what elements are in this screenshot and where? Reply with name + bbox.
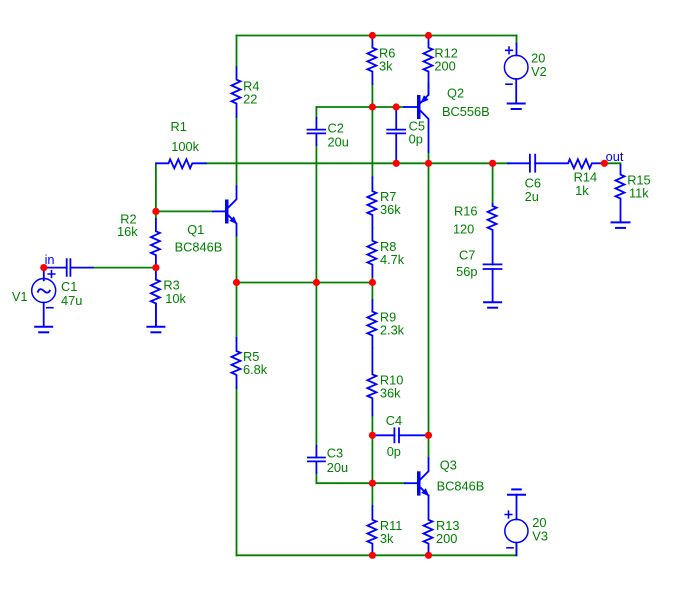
wire R16 top: [492, 163, 494, 204]
svg-text:C7: C7: [459, 248, 475, 263]
capacitor C3 20u: [308, 446, 325, 473]
node R6 top junction: [369, 32, 376, 39]
svg-text:1k: 1k: [575, 183, 589, 198]
svg-text:C4: C4: [386, 413, 402, 428]
wire R6 column joins: [371, 36, 373, 38]
resistor R4 22: [232, 67, 241, 117]
resistor R6 3k: [367, 38, 376, 85]
svg-text:C2: C2: [328, 120, 344, 135]
svg-text:20u: 20u: [328, 134, 349, 149]
wire top rail: [237, 35, 517, 37]
node R13 bottom junction: [425, 552, 432, 559]
node out dot: [601, 160, 608, 167]
svg-text:4.7k: 4.7k: [380, 252, 405, 267]
svg-text:16k: 16k: [117, 224, 138, 239]
svg-text:0p: 0p: [409, 132, 423, 147]
wire C5 column top: [395, 107, 397, 110]
svg-text:56p: 56p: [456, 264, 477, 279]
wire Q3 base segment: [372, 482, 405, 484]
svg-text:47u: 47u: [61, 293, 82, 308]
node R6 bottom junction: [369, 103, 376, 110]
wire Q2 collector down: [428, 152, 430, 164]
svg-text:3k: 3k: [380, 531, 394, 546]
node R8/R9 junction: [369, 279, 376, 286]
wire R4 bottom to Q1 collector: [236, 117, 238, 186]
node C2 column junction: [313, 279, 320, 286]
voltage source V1 sine: [32, 268, 56, 327]
svg-text:V1: V1: [12, 289, 28, 304]
wire C4 to Q3 collector: [428, 435, 430, 458]
resistor R1 100k: [156, 159, 205, 168]
resistor R11 3k: [367, 506, 376, 553]
wire Q3 base junction down to R11: [371, 483, 373, 506]
ground of R15: [612, 222, 630, 228]
resistor R9 2.3k: [367, 300, 376, 348]
capacitor C1 47u: [47, 259, 93, 276]
resistor R13 200: [424, 496, 433, 553]
wire R5 net top: [236, 283, 238, 338]
svg-text:V3: V3: [532, 528, 548, 543]
wire out segment: [604, 163, 620, 165]
transistor Q1 BC846B: [213, 186, 237, 235]
node in dot: [40, 264, 47, 271]
svg-text:2.3k: 2.3k: [380, 323, 405, 338]
node R11 bottom junction: [369, 552, 376, 559]
resistor R2 16k: [151, 219, 160, 266]
svg-text:C3: C3: [327, 446, 343, 461]
wire bottom rail: [237, 554, 517, 556]
ground of R3: [147, 304, 164, 333]
transistor Q2 BC556B: [404, 84, 429, 152]
node C4 left junction: [369, 432, 376, 439]
ground of C7: [484, 302, 501, 308]
ground of V2: [508, 104, 525, 110]
wire R11 bottom: [371, 553, 373, 555]
node C1/R3 junction: [152, 264, 159, 271]
svg-text:in: in: [45, 252, 55, 267]
svg-text:120: 120: [453, 222, 474, 237]
wire R12 top: [428, 36, 430, 38]
svg-text:Q3: Q3: [440, 458, 457, 473]
resistor R10 36k: [367, 348, 376, 415]
node C5 top junction: [393, 103, 400, 110]
transistor Q3 BC846B: [405, 458, 429, 496]
capacitor C6 2u: [508, 155, 535, 172]
wire C1 right to R3 junction: [93, 267, 156, 269]
wire x428 column mid: [428, 163, 430, 435]
wire R10 bottom to C4: [371, 415, 373, 483]
wire R4 top lead net: [236, 36, 238, 68]
svg-text:200: 200: [436, 531, 457, 546]
voltage source V3 20: [505, 489, 528, 555]
resistor R7 36k: [367, 177, 376, 228]
wire V3 top corner: [516, 546, 518, 555]
svg-text:BC556B: BC556B: [442, 104, 490, 119]
node Q1 emitter junction: [233, 279, 240, 286]
wire R13 bottom: [428, 553, 430, 555]
svg-text:Q2: Q2: [447, 86, 464, 101]
svg-text:36k: 36k: [380, 202, 401, 217]
wire C3 bottom corner to Q3 base junction: [316, 473, 372, 483]
wire Q1 emitter down: [236, 235, 238, 282]
voltage source V2 20: [504, 44, 528, 103]
svg-text:200: 200: [434, 59, 455, 74]
svg-text:2u: 2u: [525, 189, 539, 204]
resistor R5 6.8k: [232, 338, 241, 388]
node R12 top junction: [425, 32, 432, 39]
ground of V1: [35, 327, 52, 333]
capacitor C7 56p: [484, 264, 502, 301]
resistor R12 200: [424, 38, 433, 95]
wire C5 column bottom: [395, 161, 397, 163]
wire Q1 base: [156, 210, 213, 212]
wire mid rail y163: [206, 162, 508, 164]
svg-text:36k: 36k: [380, 385, 401, 400]
svg-text:BC846B: BC846B: [437, 479, 485, 494]
node C4 right junction: [425, 432, 432, 439]
svg-text:3k: 3k: [379, 59, 393, 74]
svg-text:V2: V2: [531, 64, 547, 79]
wire V2 top corner: [516, 36, 518, 44]
svg-text:20u: 20u: [327, 460, 348, 475]
resistor R15 11k: [616, 165, 625, 222]
wire R1 left vertical: [155, 163, 157, 211]
svg-text:11k: 11k: [629, 186, 649, 201]
node R2/Q1 base junction: [152, 208, 159, 215]
node Q3 base junction: [369, 480, 376, 487]
svg-text:22: 22: [243, 92, 257, 107]
svg-text:out: out: [606, 149, 624, 164]
svg-text:C1: C1: [61, 279, 77, 294]
node C5 bottom junction: [393, 160, 400, 167]
capacitor C2 20u: [308, 118, 326, 145]
capacitor C4 0p: [375, 428, 425, 442]
resistor R16 120: [488, 204, 497, 265]
svg-text:6.8k: 6.8k: [243, 362, 268, 377]
wire R8 bottom: [371, 277, 373, 283]
resistor R8 4.7k: [367, 228, 376, 277]
wire C2 C3 column: [315, 107, 317, 118]
node R16 top junction: [489, 160, 496, 167]
wire R7 top: [371, 107, 373, 177]
svg-text:0p: 0p: [387, 444, 401, 459]
svg-text:R1: R1: [171, 119, 187, 134]
capacitor C5 0p: [387, 110, 405, 161]
node Q2 collector junction: [425, 160, 432, 167]
resistor R14 1k: [535, 159, 604, 168]
wire base rail y107: [316, 106, 404, 108]
svg-text:10k: 10k: [165, 291, 186, 306]
svg-text:Q1: Q1: [187, 222, 204, 237]
resistor R3 10k: [151, 268, 160, 326]
wire R5 bottom to bottom rail: [236, 388, 238, 555]
svg-text:BC846B: BC846B: [175, 239, 223, 254]
wire emitter rail y282: [237, 282, 373, 284]
wire R2 below junction: [155, 211, 157, 219]
svg-text:R16: R16: [454, 204, 477, 219]
svg-text:100k: 100k: [171, 139, 199, 154]
wire R9 top: [371, 283, 373, 301]
